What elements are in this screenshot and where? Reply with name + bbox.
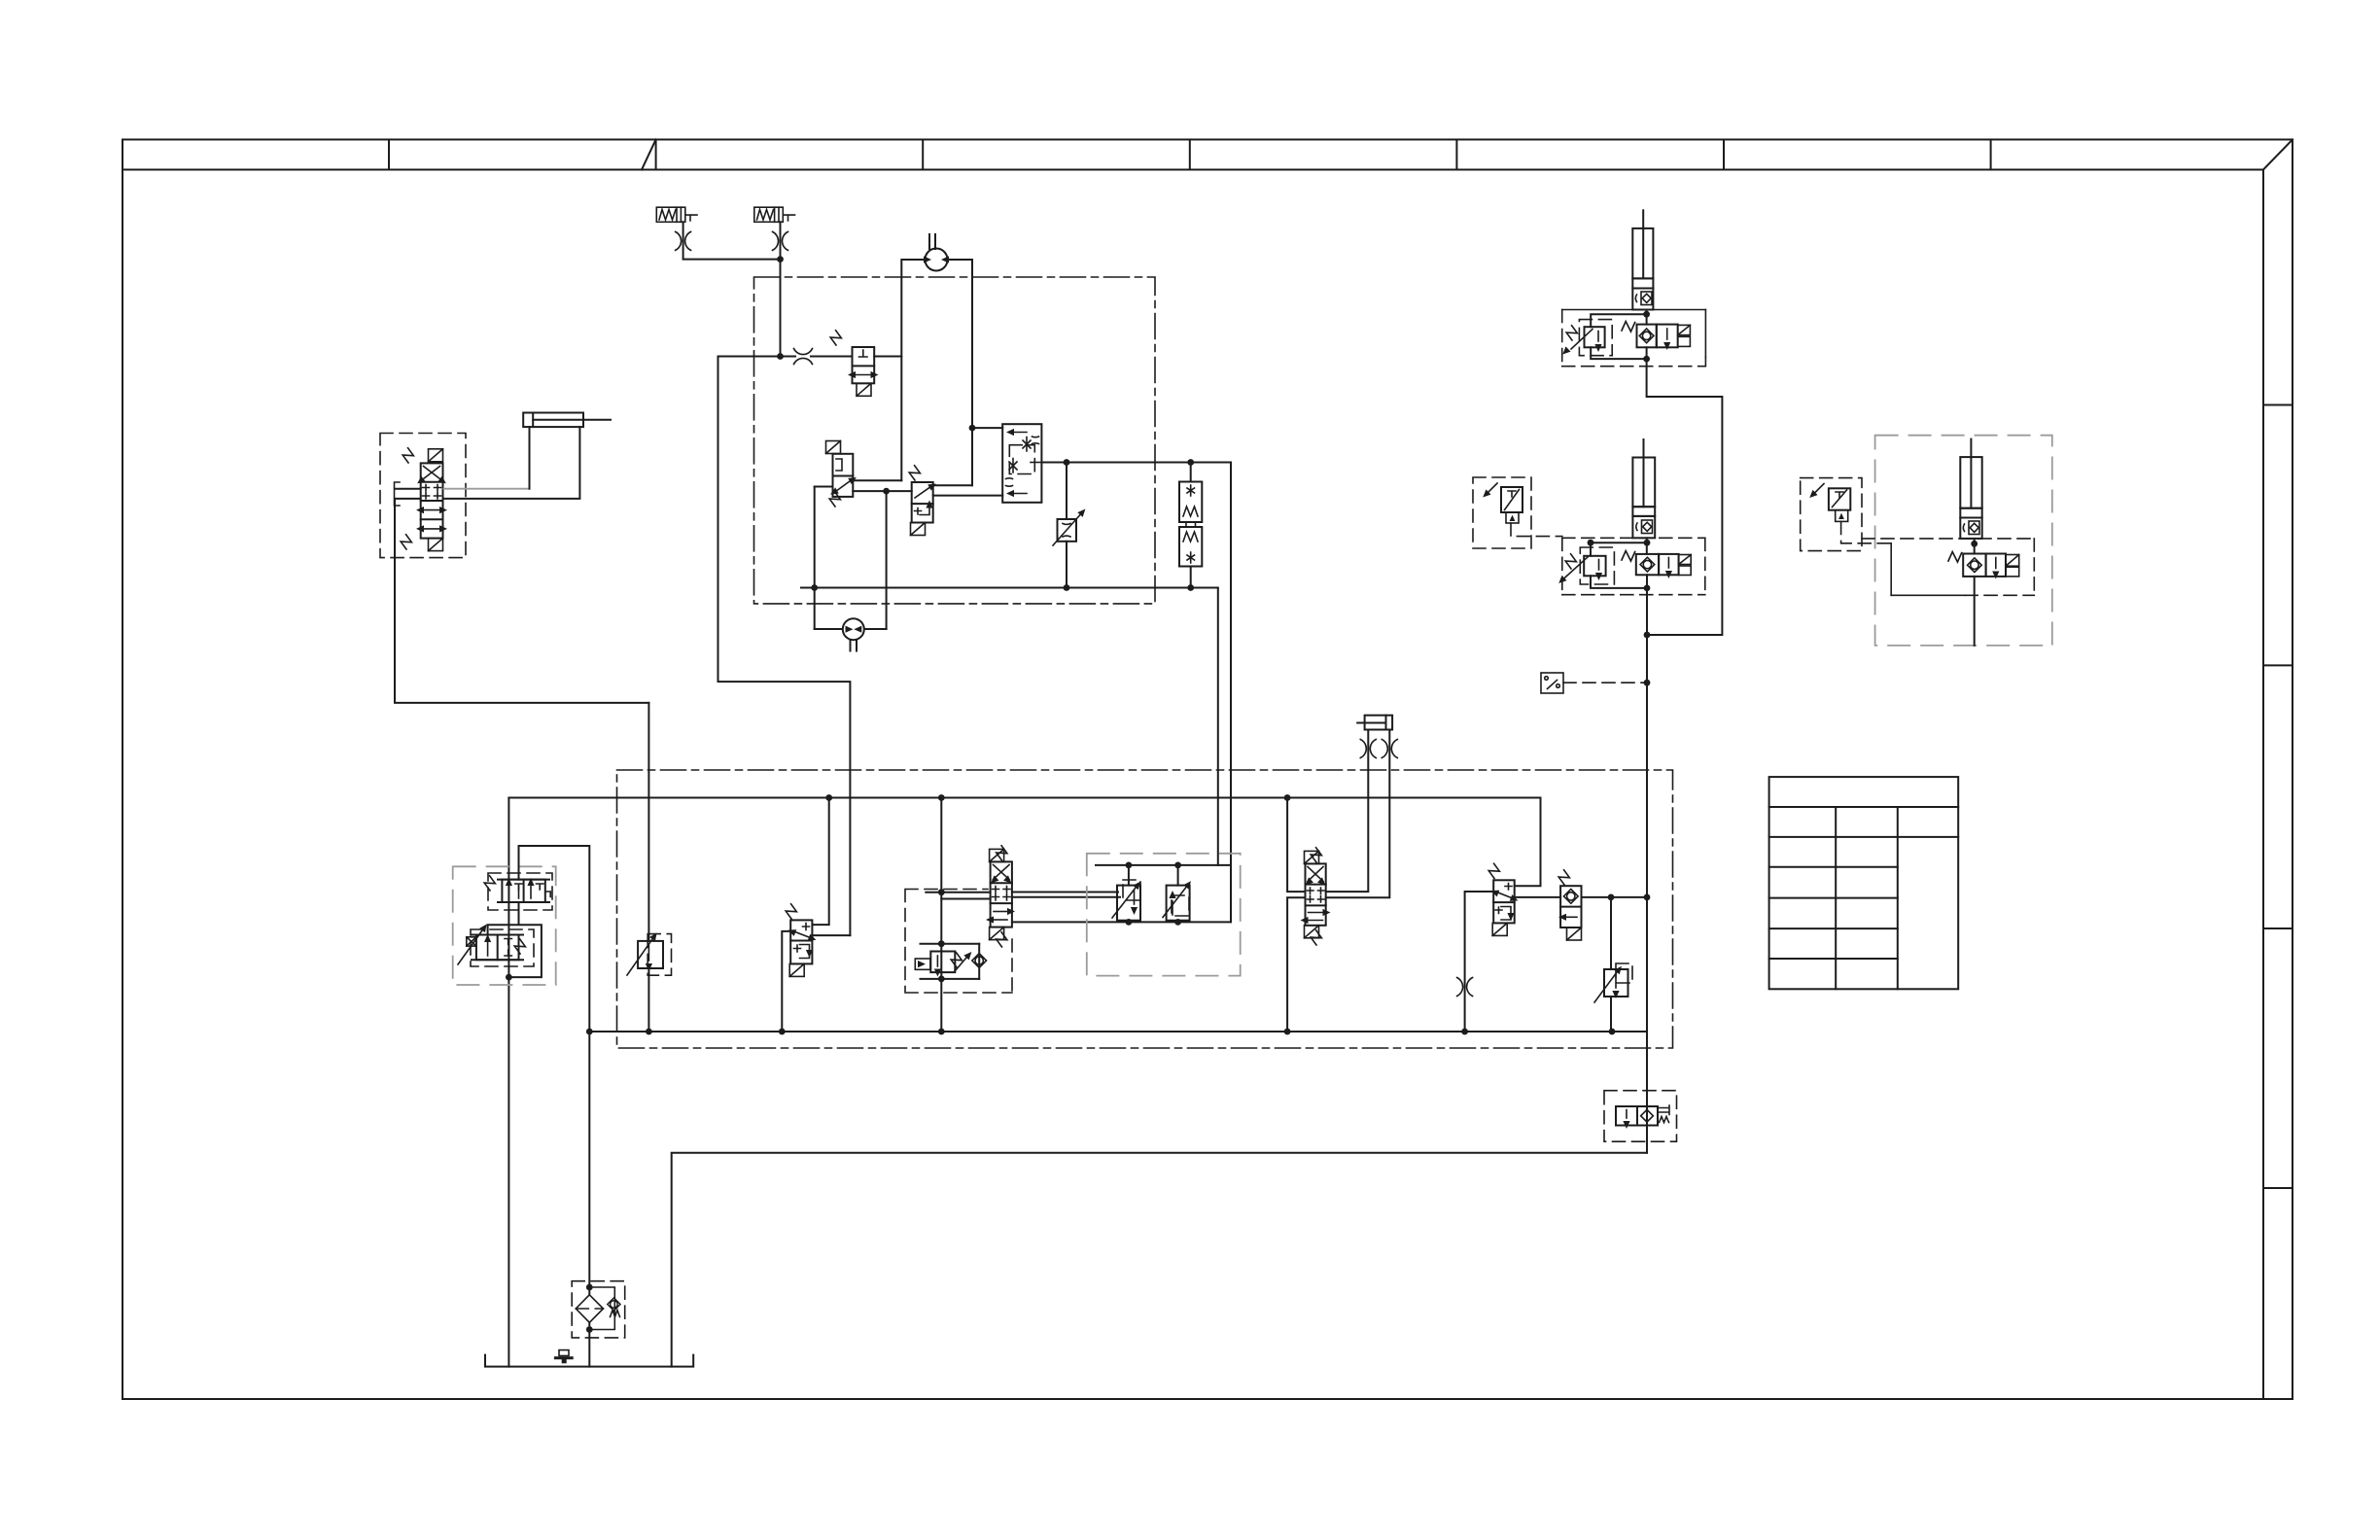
V4 cell3 double arrows [424, 509, 439, 511]
cylinder C0 (horizontal) [523, 413, 611, 428]
small cylinder C4 [1357, 716, 1392, 730]
wire bus B down to R1 top port [1515, 798, 1541, 887]
wire SB1 down/right [683, 222, 781, 259]
node M2 upper-left [938, 889, 945, 895]
V4 cell1 crossed arrows [424, 467, 440, 479]
wire M2 right upper to compound block [1012, 892, 1118, 893]
CV2 port tabs [1679, 555, 1692, 576]
node M3 drop on bottom bus [1284, 1029, 1291, 1035]
pilot spring box SB1 [656, 207, 697, 222]
cylinder CY3 rod line [1970, 439, 1972, 458]
wire CB1 right output row [1041, 463, 1231, 923]
filter dashed box [572, 1281, 625, 1338]
wire motor branch to CB1 [972, 427, 1002, 429]
wire M2 right lower to compound block [1012, 896, 1120, 898]
restrictor on cyl right line [1382, 740, 1397, 758]
compound flow-control block CB1 [1002, 424, 1041, 503]
gear pump P2 (bottom of unit) [843, 618, 864, 650]
wire motor left [901, 260, 925, 480]
grey outer dashed box FR [1875, 436, 2052, 646]
CB2 top rail [1096, 864, 1231, 866]
dashed box around L2 [471, 929, 534, 966]
frame inner top line [122, 169, 2263, 171]
pressure reducing valve PRV3 [1801, 478, 1862, 551]
node junction valve row [777, 353, 784, 360]
solenoid valve V2 (3/2) [833, 454, 854, 497]
M2 tab top-left [990, 849, 1004, 861]
wire V2 left port [815, 486, 833, 488]
V4 cell4 double arrows [424, 528, 439, 530]
check valve R2 with solenoid [1560, 886, 1581, 927]
frame inner right line [2262, 170, 2264, 1400]
wire restrictor to V1 [811, 356, 853, 358]
relief valve RV1 [1579, 320, 1612, 356]
wire M3 upper-left riser to bus B [1287, 798, 1305, 892]
wire pump right [864, 628, 887, 630]
node M2 feed on bus B [938, 794, 945, 801]
wire M3 lower-right to cyl right line [1326, 730, 1390, 898]
wire M2 upper-left port [926, 892, 990, 893]
wire V4 right grey link [443, 488, 530, 490]
grey dashed box compound block CB2 [1087, 854, 1241, 976]
wire stack top [1190, 463, 1192, 482]
variable throttle FC0 [1066, 463, 1067, 520]
cylinder CY2 rod line [1643, 439, 1645, 458]
CY2 port check insert [1636, 520, 1653, 534]
filter bypass loop [589, 1287, 614, 1330]
node RB top [938, 940, 945, 947]
dashed enclosure box around left 4/3 valve [380, 434, 466, 558]
wire L1 bypass loop to bottom bus [519, 846, 590, 1032]
check valve CV3 with solenoid [1963, 554, 2006, 577]
wire V3 bottom-right port [933, 495, 1002, 497]
wire M3 upper-right to cyl left line [1326, 730, 1369, 892]
bus A horizontal [801, 587, 1218, 589]
CY1 port check insert [1635, 292, 1652, 305]
wire CY2 to CV2 [1646, 538, 1648, 554]
M1 spring top [784, 903, 798, 919]
wire R2 output to main drop [1582, 896, 1648, 898]
node V2 drop on bus A [811, 584, 818, 591]
check valve CV1 with solenoid [1637, 325, 1678, 348]
V1 spring top-left [828, 330, 843, 345]
filter standpipe lower [588, 1322, 590, 1366]
cylinder CY1 body [1632, 228, 1653, 310]
V4 top spring [401, 447, 415, 463]
node FC1 on bottom bus [646, 1029, 652, 1035]
M3 spring top-right [1309, 847, 1323, 862]
CV3 port tabs [2006, 555, 2019, 577]
wire long left vertical with jog [718, 357, 851, 936]
wire V2 bottom-right port [853, 490, 911, 492]
wire V2 top-right port [853, 479, 901, 481]
return line to tank [672, 1153, 1647, 1367]
flow control FC1 [647, 703, 649, 941]
node FC0 on bus A [1064, 584, 1070, 591]
dashed module box around unloader block [905, 890, 1012, 994]
node CB2 bottom left [1126, 919, 1133, 926]
wire RV2 top rail [1591, 542, 1647, 556]
wire R1 lower-right to R2 [1515, 896, 1560, 898]
V4 manual lever bracket [395, 482, 401, 506]
wire left bus feed row [718, 356, 796, 358]
wire long left drop from V4 [395, 499, 648, 703]
manifold MF3 outline [1862, 539, 2034, 595]
wire CY1 to CV1 [1646, 310, 1648, 325]
node FC2 on bottom bus [1609, 1029, 1616, 1035]
chain-line central manifold box [617, 770, 1673, 1048]
V4 bottom solenoid tab [429, 539, 443, 551]
L1 right bracket port [545, 892, 550, 897]
L2 spring right [512, 938, 527, 954]
wire bus A drop to compound block 2 [1217, 588, 1219, 865]
M3 tab bottom-left [1305, 926, 1319, 938]
wire CY3 to CV3 [1974, 539, 1976, 554]
wire V3 top-right port [933, 484, 972, 486]
wire RV2 bottom rail [1591, 576, 1647, 588]
node FC2 branch [1608, 894, 1615, 901]
RB check branch [978, 944, 980, 979]
M3 spring bottom-right [1309, 929, 1323, 945]
restrictor below SB1 [676, 231, 691, 250]
CY3 port check insert [1963, 521, 1979, 535]
RB pilot box [915, 959, 930, 969]
dashed pilot link PRV2 [1511, 523, 1562, 537]
wire M1 mid-right port [812, 934, 850, 936]
frame top band dividers [389, 140, 1991, 170]
wire M1 left to bottom bus [782, 931, 790, 1032]
node V2/V3 branch [883, 488, 890, 495]
frame outer border [122, 140, 2292, 1400]
solenoid valve V1 (2/2) [853, 347, 875, 383]
L1 spring left [482, 875, 497, 891]
wire L1-L2 S-link [488, 902, 542, 977]
directional valve V4 body (4 cells, vertical) [421, 463, 443, 538]
breather plug [555, 1350, 572, 1358]
wire RV1 bottom rail [1591, 347, 1646, 359]
wire V1 to motor-left drop [874, 356, 901, 358]
wire motor right [948, 260, 973, 485]
node RV2 top left [1588, 540, 1594, 546]
main right drop line [1646, 575, 1648, 1153]
solenoid valve M2 (4/3) [991, 861, 1012, 927]
frame right band dividers [2263, 405, 2292, 1189]
solenoid valve V3 (3/2) [912, 482, 933, 523]
R1 tab bottom-left [1492, 923, 1507, 935]
V1 solenoid tab bottom [857, 383, 871, 396]
V3 solenoid tab bottom-left [911, 523, 926, 536]
V2 spring bottom [827, 491, 842, 507]
hydraulic motor M (top) [926, 234, 948, 271]
wire V2/V3 branch drop to pump [886, 491, 888, 629]
solenoid valve M1 (3/2) [790, 920, 812, 963]
relief valve RV2 [1580, 547, 1614, 584]
dashed box around L1 [488, 873, 552, 910]
node stack on bus A [1187, 584, 1194, 591]
cartridge valve L2 [472, 935, 523, 961]
node bypass on bottom bus [586, 1029, 593, 1035]
cartridge valve L1 [498, 880, 549, 902]
wire M2 feed standpipe [940, 798, 942, 1032]
M1 solenoid tab bottom-left [789, 963, 804, 976]
node R1 drop on bottom bus [1461, 1029, 1468, 1035]
node filter top [586, 1284, 593, 1291]
relief valve FC2 [1610, 897, 1612, 969]
solenoid valve R1 (3/2) [1493, 880, 1515, 923]
V4 bottom spring [399, 534, 413, 549]
bottom return bus [589, 1031, 1647, 1032]
wire V4 left port B [395, 498, 421, 500]
R2 tab bottom-right [1567, 927, 1582, 940]
filter diamond [576, 1295, 603, 1323]
cylinder CY3 body [1960, 457, 1981, 539]
restrictor on cyl left line [1360, 740, 1376, 758]
node junction SB wires [777, 256, 784, 262]
restrictor on R1 drop [1457, 978, 1473, 997]
node RV1 bottom on cylinder line [1643, 356, 1650, 363]
pressure switch PS [1541, 673, 1563, 693]
compound valve CV-A [1128, 865, 1130, 923]
cylinder CY1 rod line [1642, 210, 1644, 228]
node CB1 row FC0 branch [1064, 459, 1070, 466]
wire M2 bottom rail to compound [1012, 921, 1231, 923]
manifold MF2 outline [1562, 538, 1705, 594]
node R-line on main drop [1644, 894, 1651, 901]
wire left standpipe to tank [507, 798, 509, 1367]
wire V2 left drop to bus/pump [814, 487, 816, 630]
grey enclosure around left valves [453, 866, 556, 985]
R2 spring top [1557, 869, 1571, 885]
bypass check valve [608, 1298, 620, 1311]
RB spring right [949, 952, 963, 967]
manifold MF1 outline [1562, 310, 1706, 367]
R1 spring top [1487, 863, 1501, 879]
node RV2 bottom on main drop [1644, 585, 1651, 592]
M3 tab top-left [1305, 851, 1319, 863]
tank symbol [485, 1355, 693, 1367]
restrictor in valve row [794, 349, 813, 365]
bus B pressure rail [508, 797, 1540, 799]
RB adjust arrow [955, 958, 966, 971]
V4 top solenoid tab [429, 449, 443, 462]
node RB bottom [938, 976, 945, 983]
check valve box B5 [1604, 1091, 1677, 1142]
V4 cell2 closed port stubs [423, 485, 441, 500]
wire M3 lower-left drop to bottom bus [1287, 897, 1305, 1032]
wire V4 right black link [443, 427, 580, 499]
node motor right branch [969, 425, 976, 432]
dashed pilot line PS [1563, 682, 1647, 683]
node M1 on bus B [825, 794, 832, 801]
cylinder CY2 body [1632, 458, 1655, 539]
wire pump left [815, 628, 843, 630]
node CB2 top left [1126, 862, 1133, 869]
wire V4 left port A [395, 488, 420, 490]
wire SB2 drop to valve row [780, 222, 782, 356]
wire group1 output zigzag [1647, 347, 1723, 635]
frame corner cut diagonal [2263, 140, 2292, 170]
node PS on main drop [1644, 680, 1651, 686]
check valve CV2 with solenoid [1636, 554, 1679, 575]
wire cylinder cap drop [529, 427, 531, 489]
node CY3 line [1971, 541, 1977, 547]
compound valve CV-B [1177, 865, 1179, 923]
node filter bottom [586, 1326, 593, 1333]
node M3 riser on bus B [1284, 794, 1291, 801]
CV1 port tabs [1678, 325, 1691, 346]
node S-link on standpipe [506, 974, 512, 981]
filter standpipe upper [588, 1032, 590, 1295]
pressure reducing valve PRV2 [1473, 477, 1531, 548]
M2 spring top-right [995, 845, 1009, 860]
node CB2 bottom right [1174, 919, 1181, 926]
frame top band small diagonal mark [642, 140, 656, 170]
node RV2 top on cylinder line [1644, 540, 1651, 546]
L2 blocked port box [458, 930, 482, 964]
dashed pilot link PRV3 [1841, 521, 1892, 542]
chain-line box around pump unit [754, 277, 1156, 604]
node M2 feed on bottom bus [938, 1029, 945, 1035]
node CB2 top right [1174, 862, 1181, 869]
solenoid valve M3 (4/3) [1306, 863, 1326, 925]
wire CV3 drop [1974, 577, 1976, 646]
restrictor below SB2 [773, 231, 788, 250]
V3 spring top [907, 465, 922, 480]
wire M2 lower-left port [941, 898, 990, 900]
M2 tab bottom-left [990, 927, 1004, 940]
unloader relief block RB rails [921, 944, 980, 979]
node group junction [1644, 632, 1651, 639]
pilot spring box SB2 [754, 207, 795, 222]
M2 spring bottom-right [995, 931, 1009, 947]
dual relief stack RS [1179, 482, 1202, 567]
V2 solenoid tab top-left [826, 441, 841, 454]
wire R1 left with throttle drop [1465, 892, 1494, 1032]
node RV1 top on cylinder line [1643, 311, 1650, 318]
wire RV1 top rail [1591, 314, 1646, 327]
node M1 on bottom bus [779, 1029, 786, 1035]
node CB1 row stack branch [1187, 459, 1194, 466]
wire M1 top-right to bus B [812, 798, 828, 926]
bypass check spring [611, 1311, 620, 1317]
RB main valve [930, 952, 955, 973]
wire stack bottom to bus A [1190, 567, 1192, 588]
